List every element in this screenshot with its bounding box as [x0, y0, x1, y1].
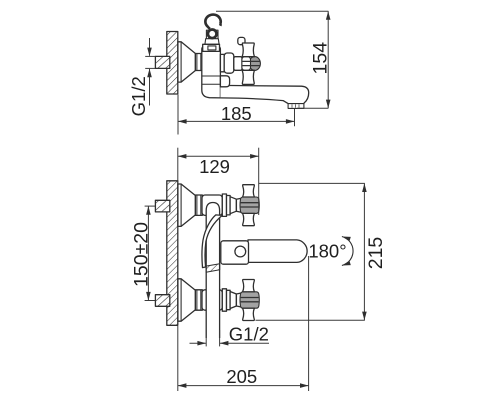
handle hub ball (shaded) [249, 57, 260, 71]
hot valve assembly [178, 184, 259, 226]
aerator at spout tip [288, 104, 304, 109]
dimension 185 extension lines [177, 95, 179, 135]
G1/2 pipe diameter extension lines [145, 55, 155, 57]
hub front [242, 57, 251, 71]
spout shoulder nut [220, 76, 229, 87]
hub knurl lines [243, 60, 261, 62]
svg-text:185: 185 [221, 103, 252, 124]
svg-text:129: 129 [199, 156, 230, 177]
dimension 185 line [178, 120, 295, 122]
dimension 205 extension lines [177, 326, 179, 391]
svg-text:205: 205 [226, 366, 257, 387]
cold valve assembly [178, 279, 259, 321]
hook ring [208, 30, 217, 39]
spout lever pill (plan view) [248, 240, 307, 263]
dimension 129 line [178, 155, 259, 157]
wall plate (side view) [167, 32, 178, 95]
wall plate (front view) [167, 181, 178, 325]
spout (side view) [220, 85, 308, 103]
dimension 215 extension lines [259, 182, 365, 184]
dimension 154 line [327, 11, 329, 108]
dimension 215 line [363, 183, 365, 320]
G1/2 outlet extension lines [205, 330, 207, 346]
hot supply pipe (top) [155, 200, 169, 212]
G1/2 outlet dimension arrows [190, 342, 206, 344]
dimension 150±20 line [147, 206, 149, 300]
diverter base plate [203, 44, 220, 51]
svg-text:G1/2: G1/2 [128, 76, 149, 116]
svg-text:180°: 180° [308, 240, 346, 261]
G1/2 dimension arrows [149, 38, 151, 56]
diverter lever blade [202, 215, 222, 268]
cross handle top arm (side view) [242, 43, 254, 57]
dimension 205 line [178, 385, 309, 387]
faucet body (side view) [202, 46, 221, 98]
supply pipe G1/2 (side view) [155, 56, 169, 68]
shower hook [205, 15, 220, 29]
adapter barrel [224, 53, 234, 73]
dimension 150±20 extension lines [145, 205, 156, 207]
svg-text:150±20: 150±20 [130, 222, 152, 287]
svg-text:215: 215 [365, 237, 387, 270]
hatched break on column [206, 264, 220, 273]
block hole [235, 246, 246, 257]
union nut (side view) [195, 54, 202, 71]
rear arm tab [238, 37, 245, 44]
dimension 154 extension line (top) [216, 10, 328, 12]
diverter post on body top [206, 30, 208, 44]
cold supply pipe (bottom) [155, 295, 169, 307]
lever mounting block [221, 241, 249, 264]
base plate notch [208, 46, 216, 50]
180 degree swivel arc [342, 237, 353, 266]
shower column riser with dome top [206, 203, 219, 339]
dimension 129 extension lines [177, 148, 179, 181]
valve adapter step (side view) [220, 54, 224, 71]
svg-text:154: 154 [310, 42, 332, 75]
cross handle bottom arm (side view) [242, 70, 254, 84]
body section lines [202, 75, 220, 77]
escutcheon bell (side view) [178, 42, 196, 82]
dimension 154 extension line (bottom) [297, 107, 328, 109]
svg-text:G1/2: G1/2 [229, 323, 269, 344]
stem washer [234, 57, 242, 71]
